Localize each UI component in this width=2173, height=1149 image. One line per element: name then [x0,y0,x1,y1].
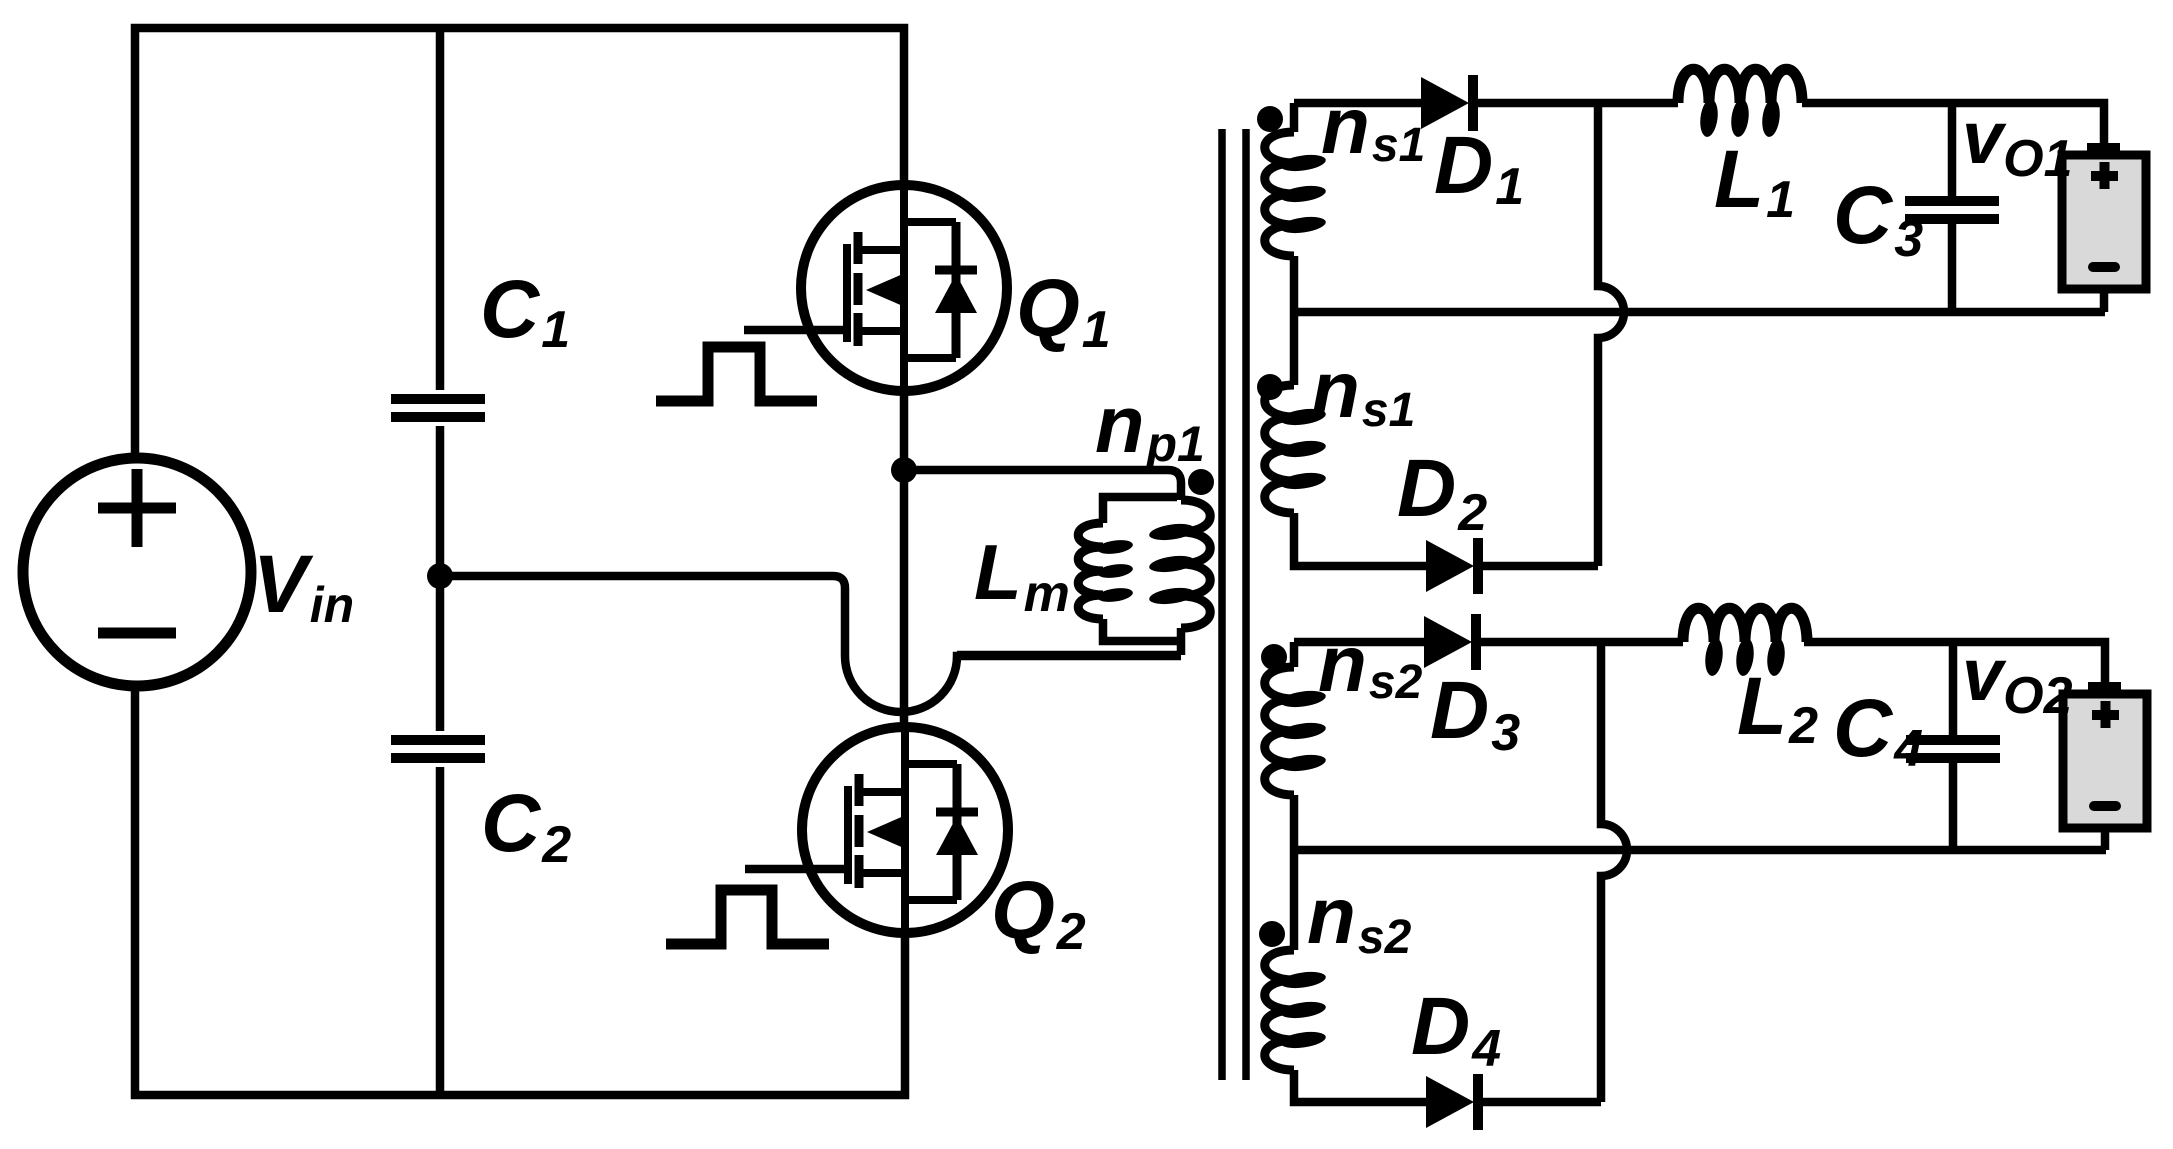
voltage source Vin [23,458,251,686]
inductor Lm winding [1078,523,1103,619]
wire: battery vO1 bottom lead [2100,289,2109,312]
wire: ns1 bottom to D2 [1294,513,1598,566]
wire: midpoint node to primary return with hop over half-bridge leg [440,576,1181,712]
wire: ns1 top to center tap [1290,256,1299,312]
node: np1 polarity dot [1188,469,1214,495]
primary winding np1 [1181,500,1210,628]
wire: D3/D4 junction leg with hop over center tap of output2 [1601,642,1627,1102]
gate pulse waveform for Q2 [666,890,829,944]
diode D2 [1426,538,1478,594]
capacitor C4 with leads [1949,642,1958,850]
capacitor C1 plates [391,399,485,417]
node: C1/C2 midpoint junction dot [427,563,453,589]
transformer core [1222,129,1246,1080]
transistor Q2 (MOSFET with body diode) [802,727,1008,933]
transistor Q1 (MOSFET with body diode) [801,185,1007,391]
wire: D1/D2 junction leg with hop over center tap [1598,103,1624,566]
secondary winding ns1 bottom [1290,312,1299,385]
gate pulse waveform for Q1 [656,347,817,401]
secondary winding ns2 bottom [1290,850,1299,950]
wire: switch node to primary winding np1 [904,470,1181,500]
inductor L1 [1678,69,1802,103]
wire: half-bridge leg between Q1 and Q2 [900,391,909,727]
voltage source / battery vO1 [2062,143,2146,289]
wire: output1 top rail with diode D1 [1294,103,2104,144]
node: ns1 top polarity dot [1257,106,1283,132]
node: ns2 top polarity dot [1261,644,1287,670]
capacitor C2 plates [391,740,485,758]
capacitor C3 with leads [1948,103,1957,312]
wire: battery vO2 bottom lead [2101,828,2110,850]
capacitor C4 plates [1906,740,2000,758]
wire: C2 bottom to bottom rail [436,767,445,1095]
gate drive lead Q2 [745,865,849,874]
inductor Lm (magnetizing) frame [1103,497,1181,641]
wire: np1 bottom lead [957,628,1181,655]
diode D1 [1421,75,1473,131]
wire: center tap rail of output1 [1294,308,2105,317]
wire: top rail from Vin+ to Q1 drain [135,28,904,461]
wire: ns2 bottom to D4 [1294,1070,1601,1102]
inductor L2 [1683,608,1807,642]
wire: bottom rail from Vin- to Q2 source [135,686,905,1095]
gate drive lead Q1 [744,326,848,335]
diode D4 [1426,1074,1478,1130]
secondary winding ns2 top [1290,642,1299,667]
node: ns1 bottom polarity dot [1257,374,1283,400]
diode D3 [1424,614,1476,670]
capacitor C3 plates [1905,201,1999,219]
node: ns2 bottom polarity dot [1259,921,1285,947]
wire: ns2 top to center tap [1290,795,1299,850]
voltage source / battery vO2 [2063,682,2147,828]
wire: C1 branch top [436,28,445,390]
node: switch node dot [891,457,917,483]
secondary winding ns1 top [1290,103,1299,132]
wire: C1 bottom to midpoint node [436,426,445,731]
wire: output2 top rail with diode D3 [1294,642,2105,682]
wire: center tap rail of output2 [1294,846,2106,855]
